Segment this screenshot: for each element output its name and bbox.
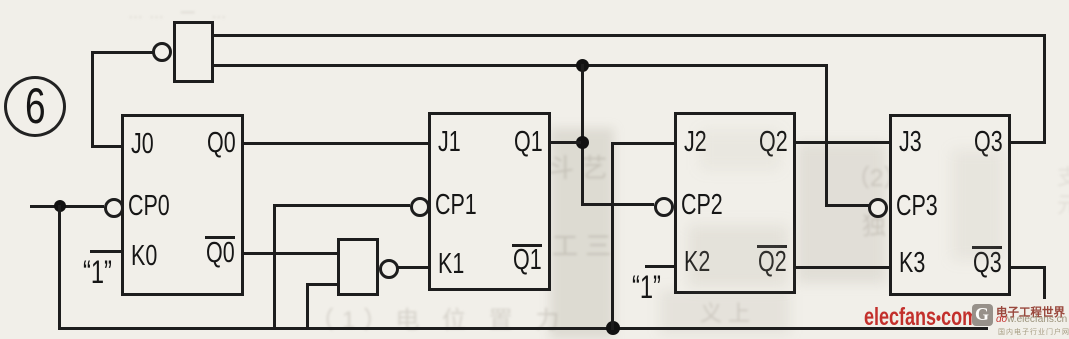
gate G1 (top-left NAND box)	[173, 21, 214, 83]
pin label CP2	[681, 188, 723, 222]
wire Q0 to J1	[244, 142, 428, 145]
wire into CP1	[273, 204, 410, 207]
gate G2 (NAND box)	[337, 238, 379, 296]
node junction dot on second line	[576, 59, 589, 72]
overbar Q1bar	[512, 244, 542, 247]
CP1 input bubble	[410, 197, 430, 217]
wire Q0bar to gate G2	[244, 252, 337, 255]
faint bleed-through right mid	[862, 206, 917, 241]
pin label K3	[899, 246, 925, 280]
scan shading inside FF2 top	[700, 130, 780, 170]
watermark slogan line	[998, 327, 1069, 337]
flip-flop FF2	[674, 112, 796, 294]
wire Q3 output	[1011, 141, 1046, 144]
wire vertical left down to rail	[58, 205, 61, 330]
pin label Q0bar	[206, 236, 235, 270]
pin label J3	[899, 125, 922, 159]
pin label K2	[684, 245, 710, 279]
CP0 input bubble	[104, 198, 124, 218]
pin label CP3	[896, 189, 938, 223]
wire vertical rail to CP1	[273, 204, 276, 330]
pin label Q2bar	[758, 245, 787, 279]
faint bleed-through right of FF2	[846, 158, 931, 193]
wire Q2bar to K3	[796, 266, 889, 269]
label "1" at K0	[83, 255, 112, 289]
CP3 input bubble	[868, 198, 888, 218]
faint bleed-through bottom center	[310, 300, 567, 335]
overbar Q2bar	[757, 245, 787, 248]
pin label Q2	[759, 125, 788, 159]
watermark logo block	[972, 304, 993, 326]
wire K0 constant stub	[90, 250, 122, 253]
faint bleed-through right margin band	[1050, 165, 1069, 215]
wire Q3bar vertical to bottom rail	[1043, 266, 1046, 330]
pin label Q3bar	[973, 246, 1002, 280]
figure number circle 6	[4, 76, 66, 137]
wire vertical x827 down to CP3	[825, 64, 828, 207]
faint bleed-through center lower	[552, 226, 611, 263]
pin label J1	[438, 125, 461, 159]
faint bleed-through text top left	[128, 2, 232, 23]
pin label Q3	[974, 125, 1003, 159]
wire into CP2	[581, 203, 654, 206]
wire Q3bar output	[1011, 266, 1046, 269]
wire into J2	[611, 142, 674, 145]
flip-flop FF1	[428, 112, 551, 291]
pin label K1	[438, 247, 464, 281]
faint bleed-through column center	[548, 148, 607, 185]
pin label CP0	[128, 189, 170, 223]
overbar Q0bar	[205, 236, 235, 239]
wire bottom clock rail	[58, 327, 988, 330]
faint bleed-through under FF2	[700, 296, 750, 328]
pin label Q0	[207, 126, 236, 160]
wire G1 bubble to corner	[92, 51, 153, 54]
wire into J0	[91, 145, 122, 148]
gate G2 output bubble	[379, 259, 399, 279]
pin label Q1	[514, 125, 543, 159]
wire G2 lower input	[306, 283, 337, 286]
wire CP input terminal	[30, 205, 104, 208]
pin label CP1	[435, 188, 477, 222]
wire vertical right side down to Q3	[1043, 34, 1046, 144]
scan shading inside FF2	[688, 225, 788, 287]
label "1" at K2	[632, 270, 661, 304]
pin label Q1bar	[513, 243, 542, 277]
watermark logo G	[975, 304, 989, 325]
node junction dot CP input	[54, 200, 66, 212]
wire Q3 feedback top line	[208, 34, 1046, 37]
wire K2 constant stub	[645, 265, 675, 268]
pin label J0	[131, 127, 154, 161]
wire Q2 to J3	[796, 141, 889, 144]
wire vertical down to J0	[91, 51, 94, 147]
wire G2 output to K1	[395, 266, 428, 269]
wire into CP3	[825, 204, 869, 207]
CP2 input bubble	[654, 197, 674, 217]
scan shading blotch right of FF2	[797, 143, 886, 283]
wire vertical rail to gate G2 lower input	[306, 283, 309, 330]
watermark url line	[996, 314, 1067, 325]
wire vertical x583 Q1 to CP2	[581, 64, 584, 206]
pin label J2	[684, 125, 707, 159]
scan shading inside FF3	[952, 150, 1004, 260]
scan shading blotch under FF2	[660, 290, 790, 334]
wire Q1 output	[551, 141, 581, 144]
overbar Q3bar	[972, 246, 1002, 249]
watermark chinese title	[996, 304, 1065, 320]
flip-flop FF3	[889, 114, 1011, 296]
gate G1 output bubble	[152, 42, 172, 62]
node junction dot at Q1	[576, 136, 589, 149]
scan shading band center	[550, 128, 614, 339]
flip-flop FF0	[121, 114, 244, 296]
wire Q1 net second top line	[208, 64, 828, 67]
pin label K0	[131, 239, 157, 273]
wire vertical rail to J2	[611, 142, 614, 330]
watermark backing panel	[988, 299, 1069, 339]
node junction dot on rail	[606, 321, 620, 335]
watermark elecfans.com	[864, 303, 978, 332]
